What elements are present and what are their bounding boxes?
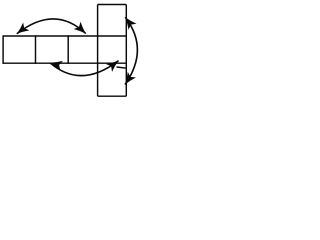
arc bottom: [50, 61, 119, 76]
wire: [97, 5, 99, 97]
cube net folding diagram: [0, 0, 146, 104]
arrowhead bottom-left: [50, 61, 63, 71]
wire: [98, 95, 127, 97]
arrowhead bottom-right: [106, 61, 119, 72]
arrowhead top-right: [74, 22, 86, 34]
wire: [98, 4, 127, 6]
wire: [125, 5, 127, 97]
wire: [3, 62, 126, 64]
wire: [2, 35, 4, 64]
wire: [3, 35, 126, 37]
arrowhead top-left: [17, 22, 30, 33]
arc top: [17, 19, 86, 34]
arc right: [125, 17, 137, 84]
wire: [67, 35, 69, 64]
arrowhead right-bottom: [125, 72, 136, 85]
wire: [35, 35, 37, 64]
wire: [117, 67, 127, 68]
arrowhead right-top: [125, 17, 136, 30]
